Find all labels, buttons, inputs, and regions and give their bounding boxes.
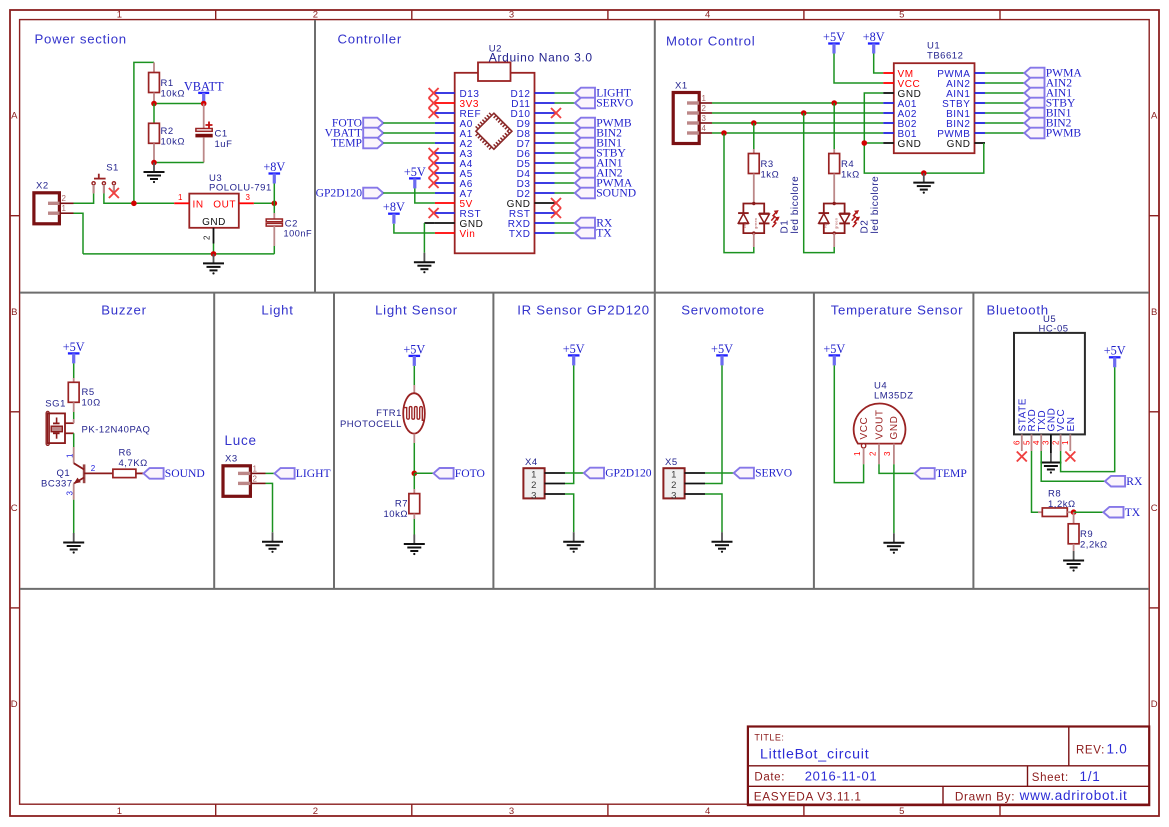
svg-text:2: 2 — [1051, 440, 1060, 445]
wire R7 to gnd — [413, 519, 415, 535]
wire +5V to FTR1 — [413, 366, 415, 385]
net flag +5V motor — [823, 30, 845, 54]
svg-text:2: 2 — [203, 235, 212, 240]
port flag TX — [575, 227, 612, 240]
pin 3V3 of U2 — [435, 102, 455, 104]
svg-text:TX: TX — [596, 227, 612, 240]
wire to FOTO flag — [414, 472, 433, 474]
svg-text:+5V: +5V — [1104, 344, 1126, 358]
port flag SOUND — [575, 187, 636, 200]
svg-text:D2: D2 — [860, 220, 871, 234]
led D2 bicolore — [819, 202, 861, 235]
svg-text:Arduino Nano 3.0: Arduino Nano 3.0 — [489, 51, 593, 65]
wire X2 pin1 down — [74, 213, 84, 254]
junction at R2 bottom — [151, 160, 157, 166]
connector X5 — [663, 468, 705, 498]
resistor R7 — [409, 489, 420, 519]
pin RST right of U2 — [535, 212, 555, 214]
svg-text:+5V: +5V — [823, 30, 845, 44]
resistor R6 — [113, 469, 136, 477]
pin D11 right of U2 — [535, 102, 555, 104]
svg-text:1: 1 — [853, 451, 862, 456]
ground below U2 — [414, 253, 435, 274]
resistor R9 — [1068, 512, 1079, 551]
pin A3 of U2 — [435, 152, 455, 154]
svg-text:Power section: Power section — [35, 32, 127, 47]
pin A02 left of U1 — [883, 112, 894, 114]
wire U2 to BIN1 — [555, 142, 575, 144]
svg-text:FTR1: FTR1 — [376, 408, 402, 419]
pin D12 right of U2 — [535, 92, 555, 94]
ground below U5 GND — [1040, 453, 1061, 474]
junction at VBATT rail bottom — [131, 201, 137, 207]
svg-text:Sheet:: Sheet: — [1032, 772, 1069, 784]
pin A5 of U2 — [435, 172, 455, 174]
svg-text:Buzzer: Buzzer — [101, 303, 146, 318]
wire U2 to SERVO — [555, 102, 575, 104]
pin GND right of U2 — [535, 202, 555, 204]
wire D1 loop — [753, 233, 755, 247]
ground below R9 — [1063, 551, 1084, 572]
wire U2 to AIN2 — [555, 172, 575, 174]
resistor R4 — [829, 103, 840, 204]
svg-text:+8V: +8V — [263, 160, 285, 174]
wire R1 to VBATT — [154, 103, 204, 105]
svg-text:GND: GND — [898, 139, 922, 150]
wire X1 pin4 to B01 — [712, 132, 883, 134]
connector X3 — [223, 466, 266, 497]
ground below X3 — [262, 532, 283, 553]
svg-text:3: 3 — [883, 451, 892, 456]
svg-text:3: 3 — [702, 114, 707, 123]
svg-text:6: 6 — [1013, 440, 1022, 445]
svg-text:5: 5 — [1022, 440, 1031, 445]
pin BIN1 right of U1 — [975, 112, 986, 114]
svg-text:C: C — [1151, 503, 1158, 514]
wire +5V IR down — [565, 365, 574, 483]
mcu U2 body — [455, 62, 535, 253]
svg-text:+5V: +5V — [823, 342, 845, 356]
junction at VBATT — [201, 101, 207, 107]
buzzer SG1 — [46, 411, 74, 445]
svg-text:R5: R5 — [82, 387, 95, 398]
junction at U3 out — [272, 201, 278, 207]
svg-text:1: 1 — [62, 204, 67, 213]
port flag GP2D120 — [316, 187, 384, 200]
wire U2 GND down — [424, 222, 435, 224]
ground below U3 — [203, 254, 224, 275]
wire VBATT top rail — [134, 62, 154, 203]
svg-text:REV:: REV: — [1076, 745, 1105, 757]
wire X4 pin3 to gnd — [565, 494, 574, 532]
svg-text:R2: R2 — [161, 126, 174, 137]
svg-text:2: 2 — [868, 451, 877, 456]
wire FTR1 to FOTO — [413, 443, 415, 473]
svg-text:led bicolore: led bicolore — [790, 176, 801, 234]
switch S1 — [92, 174, 116, 194]
svg-text:1kΩ: 1kΩ — [761, 170, 780, 181]
pin D9 right of U2 — [535, 122, 555, 124]
svg-text:IN: IN — [193, 199, 204, 210]
mcu U2 chip glyph — [476, 113, 512, 149]
no-connect X on U2 D13 — [429, 88, 439, 98]
wire +5V to U4 VCC — [834, 365, 863, 482]
svg-text:led bicolore: led bicolore — [870, 176, 881, 234]
svg-text:Motor Control: Motor Control — [666, 34, 755, 49]
transistor Q1 — [74, 447, 84, 500]
svg-text:3: 3 — [509, 806, 515, 817]
svg-text:2: 2 — [702, 104, 707, 113]
wire FOTO to R7 — [413, 473, 415, 489]
wire X4 pin1 to flag — [565, 472, 584, 474]
port flag SOUND buzzer — [144, 467, 205, 480]
pin 3 of U3 — [239, 202, 254, 204]
svg-text:10kΩ: 10kΩ — [161, 89, 186, 100]
net flag +5V light sensor — [403, 342, 425, 366]
svg-text:+8V: +8V — [383, 200, 405, 214]
pin RST of U2 — [435, 212, 455, 214]
port flag STBY — [575, 147, 627, 160]
pin VM left of U1 — [883, 72, 894, 74]
wire R5 to buzzer — [73, 412, 75, 419]
svg-text:10kΩ: 10kΩ — [161, 137, 186, 148]
svg-text:GND: GND — [202, 217, 226, 228]
wire U1 GND left — [864, 93, 984, 173]
pin A1 of U2 — [435, 132, 455, 134]
wire R8 to TX — [1074, 511, 1104, 513]
wire +8V to Vin — [394, 224, 435, 233]
svg-text:3: 3 — [246, 193, 251, 202]
svg-text:3: 3 — [531, 490, 537, 501]
wire U2 to SOUND — [555, 192, 575, 194]
svg-text:R3: R3 — [761, 159, 774, 170]
pin B01 left of U1 — [883, 132, 894, 134]
wire U1 to AIN1 flag — [985, 92, 1024, 94]
net flag VBATT — [184, 79, 224, 103]
svg-text:POLOLU-791: POLOLU-791 — [209, 183, 272, 194]
pin 2 of U3 — [213, 228, 215, 244]
pin D5 right of U2 — [535, 162, 555, 164]
svg-text:1: 1 — [117, 806, 123, 817]
no-connect X on U5 STATE — [1017, 452, 1027, 462]
svg-text:4,7KΩ: 4,7KΩ — [119, 458, 148, 469]
pin 1 of U3 — [174, 202, 189, 204]
svg-text:2: 2 — [253, 475, 258, 484]
svg-text:+5V: +5V — [63, 340, 85, 354]
svg-text:1: 1 — [531, 469, 537, 480]
pin D2 right of U2 — [535, 192, 555, 194]
svg-text:2: 2 — [62, 194, 67, 203]
svg-text:X4: X4 — [525, 457, 538, 468]
svg-text:1: 1 — [117, 9, 123, 20]
port flag LIGHT — [275, 467, 331, 480]
svg-text:3: 3 — [671, 490, 677, 501]
wire U5 VCC to +5V — [1061, 367, 1115, 471]
svg-text:X5: X5 — [665, 457, 678, 468]
svg-text:3: 3 — [509, 9, 515, 20]
wire U1 to AIN2 flag — [985, 82, 1024, 84]
photocell FTR1 — [403, 385, 425, 443]
svg-text:X3: X3 — [225, 454, 238, 465]
svg-text:VOUT: VOUT — [874, 410, 885, 440]
pin GND of U2 — [435, 222, 455, 224]
svg-text:PK-12N40PAQ: PK-12N40PAQ — [82, 424, 151, 435]
no-connect X on U2 A3 — [429, 148, 439, 158]
port flag AIN2 motor — [1024, 77, 1072, 90]
pin A2 of U2 — [435, 142, 455, 144]
wire U2 to AIN1 — [555, 162, 575, 164]
svg-text:GP2D120: GP2D120 — [605, 467, 652, 480]
net flag +8V motor — [863, 30, 885, 54]
port flag PWMA motor — [1024, 67, 1082, 80]
svg-text:2: 2 — [531, 480, 537, 491]
net flag +8V power — [263, 160, 285, 184]
svg-text:5: 5 — [899, 9, 905, 20]
pin PWMB right of U1 — [975, 132, 986, 134]
svg-text:GP2D120: GP2D120 — [316, 187, 363, 200]
wire R2 C1 bottom — [154, 162, 204, 164]
capacitor C1 — [195, 104, 212, 163]
section partition lines — [20, 292, 1149, 294]
svg-text:+5V: +5V — [563, 342, 585, 356]
port flag RX — [575, 217, 613, 230]
led D1 bicolore — [738, 202, 780, 235]
svg-text:TEMP: TEMP — [331, 137, 362, 150]
svg-text:VBATT: VBATT — [184, 79, 224, 93]
wire R6 to SOUND — [136, 472, 144, 474]
port flag PWMA — [575, 177, 633, 190]
wire U2 to RX — [555, 222, 575, 224]
wire U3 pin2 to rail — [213, 244, 215, 254]
svg-text:Temperature Sensor: Temperature Sensor — [831, 303, 964, 318]
junction X1 pin4 — [721, 130, 727, 136]
ground below U4 — [883, 533, 904, 554]
svg-text:Bluetooth: Bluetooth — [987, 303, 1049, 318]
svg-text:Light: Light — [261, 303, 293, 318]
junction U1 gnd — [862, 140, 868, 146]
port flag BIN2 motor — [1024, 117, 1071, 130]
no-connect X on U2 D10 right — [551, 108, 561, 118]
svg-text:4: 4 — [702, 124, 707, 133]
driver U1 body — [894, 63, 975, 153]
ground below Q1 — [63, 533, 84, 554]
svg-text:10Ω: 10Ω — [82, 398, 101, 409]
no-connect X on U2 A4 — [429, 158, 439, 168]
svg-text:RX: RX — [1126, 475, 1143, 488]
junction at R1 bottom — [151, 101, 157, 107]
pin STBY right of U1 — [975, 102, 986, 104]
svg-text:TITLE:: TITLE: — [754, 733, 784, 743]
svg-text:TB6612: TB6612 — [927, 51, 963, 62]
wire U1 GND left lower — [864, 142, 883, 144]
ground below R2 — [144, 163, 165, 184]
svg-text:1/1: 1/1 — [1080, 769, 1101, 784]
svg-text:EASYEDA V3.11.1: EASYEDA V3.11.1 — [754, 790, 862, 804]
svg-text:red: red — [742, 222, 747, 228]
svg-text:PHOTOCELL: PHOTOCELL — [340, 419, 402, 430]
svg-text:GND: GND — [889, 416, 900, 440]
svg-text:1uF: 1uF — [215, 139, 233, 150]
pin D10 right of U2 — [535, 112, 555, 114]
wire +8V to VM — [874, 54, 884, 74]
pin Vin of U2 — [435, 232, 455, 234]
net flag +5V bluetooth — [1104, 344, 1126, 368]
svg-text:R9: R9 — [1080, 529, 1093, 540]
wire +8V down — [273, 184, 275, 204]
svg-text:1.0: 1.0 — [1107, 742, 1128, 757]
svg-text:2: 2 — [91, 464, 96, 473]
net flag +5V buzzer — [63, 340, 85, 364]
wire U2 to STBY — [555, 152, 575, 154]
net flag +5V servo — [711, 342, 733, 366]
junction U1 gnd bottom — [921, 170, 927, 176]
no-connect X on S1 pin — [109, 188, 119, 198]
svg-text:S1: S1 — [106, 163, 119, 174]
svg-text:SOUND: SOUND — [596, 187, 636, 200]
resistor R2 — [149, 123, 160, 162]
svg-text:R7: R7 — [395, 499, 408, 510]
port flag PWMB — [575, 117, 632, 130]
svg-text:1: 1 — [671, 469, 677, 480]
svg-text:Date:: Date: — [754, 772, 785, 784]
svg-text:LM35DZ: LM35DZ — [874, 391, 914, 402]
net flag +5V temp — [823, 342, 845, 366]
sensor U4 LM35DZ — [854, 403, 906, 464]
wire D2 loop — [833, 233, 835, 247]
junction at U3 gnd — [211, 251, 217, 257]
port flag RX — [1105, 475, 1143, 488]
base wire Q1 to R6 — [84, 472, 113, 474]
svg-text:D: D — [1151, 699, 1158, 710]
wire U1 to PWMA flag — [985, 72, 1024, 74]
no-connect X on U2 RST — [429, 208, 439, 218]
pin A01 left of U1 — [883, 102, 894, 104]
svg-text:1: 1 — [178, 193, 183, 202]
no-connect X on U2 A6 — [429, 178, 439, 188]
pin D13 of U2 — [435, 92, 455, 94]
junction FOTO node — [412, 471, 418, 477]
svg-text:red: red — [822, 222, 827, 228]
svg-text:4: 4 — [1032, 440, 1041, 445]
pin B02 left of U1 — [883, 122, 894, 124]
svg-text:EN: EN — [1066, 417, 1077, 432]
svg-text:R1: R1 — [161, 78, 174, 89]
pin D8 right of U2 — [535, 132, 555, 134]
svg-text:A: A — [11, 111, 18, 122]
pin AIN1 right of U1 — [975, 92, 986, 94]
port flag SERVO — [575, 97, 633, 110]
svg-text:3: 3 — [1042, 440, 1051, 445]
junction X1 pin3 — [751, 120, 757, 126]
wire U5 TXD to RX — [1041, 451, 1105, 481]
pin REF of U2 — [435, 112, 455, 114]
resistor R8 — [1038, 508, 1074, 517]
pin PWMA right of U1 — [975, 72, 986, 74]
wire FOTO to A0 — [383, 122, 435, 124]
svg-text:Drawn By:: Drawn By: — [955, 790, 1015, 804]
pin BIN2 right of U1 — [975, 122, 986, 124]
connector X2 — [34, 193, 74, 224]
svg-text:green: green — [833, 218, 838, 229]
wire U3 GND bottom rail — [83, 253, 274, 255]
svg-text:SG1: SG1 — [45, 399, 66, 410]
wire +5V servo down — [705, 365, 722, 483]
svg-text:Servomotore: Servomotore — [681, 303, 765, 318]
svg-text:PWMB: PWMB — [1046, 127, 1082, 140]
pin D7 right of U2 — [535, 142, 555, 144]
pin GND left of U1 — [883, 142, 894, 144]
port flag TX — [1103, 506, 1140, 519]
wire U2 to TX — [555, 232, 575, 234]
wire X5 pin3 to gnd — [705, 494, 722, 532]
wire U1 to BIN2 flag — [985, 122, 1024, 124]
svg-text:VCC: VCC — [859, 417, 870, 440]
net flag +5V IR — [563, 342, 585, 366]
wire U1 to STBY flag — [985, 102, 1024, 104]
svg-text:FOTO: FOTO — [455, 467, 485, 480]
port flag SERVO sensor — [734, 467, 792, 480]
wire X5 pin1 to flag — [705, 472, 734, 474]
wire U2 to PWMB — [555, 122, 575, 124]
wire U2 to LIGHT — [555, 92, 575, 94]
svg-text:TEMP: TEMP — [936, 467, 967, 480]
svg-text:IR Sensor GP2D120: IR Sensor GP2D120 — [517, 303, 650, 318]
no-connect X on U2 A5 — [429, 168, 439, 178]
junction X1 pin2 — [801, 110, 807, 116]
svg-text:green: green — [753, 218, 758, 229]
ground below U1 — [913, 173, 934, 194]
svg-text:2: 2 — [313, 806, 319, 817]
connector X4 — [523, 468, 565, 498]
svg-text:1kΩ: 1kΩ — [841, 170, 860, 181]
svg-text:5: 5 — [899, 806, 905, 817]
svg-text:D: D — [11, 699, 18, 710]
no-connect X on U5 EN — [1065, 452, 1075, 462]
svg-text:A: A — [1151, 111, 1158, 122]
wire X1 pin1 to A01 — [712, 102, 883, 104]
net flag +8V controller — [383, 200, 405, 224]
svg-text:LIGHT: LIGHT — [296, 467, 331, 480]
pin TXD right of U2 — [535, 232, 555, 234]
svg-text:X1: X1 — [675, 81, 688, 92]
svg-text:4: 4 — [705, 806, 711, 817]
svg-text:+5V: +5V — [711, 342, 733, 356]
svg-text:2,2kΩ: 2,2kΩ — [1080, 540, 1108, 551]
svg-text:2: 2 — [671, 480, 677, 491]
wire GP2D120 to A7 — [383, 192, 435, 194]
svg-text:OUT: OUT — [213, 199, 236, 210]
wire +5V to VCC — [834, 54, 883, 84]
pin RXD right of U2 — [535, 222, 555, 224]
svg-text:1: 1 — [253, 465, 258, 474]
wire X2 pin2 to switch — [74, 193, 94, 203]
wire VBATT to A1 — [383, 132, 435, 134]
pin A4 of U2 — [435, 162, 455, 164]
port flag LIGHT — [575, 87, 631, 100]
port flag BIN1 — [575, 137, 622, 150]
wire U1 to BIN1 flag — [985, 112, 1024, 114]
wire +5V to 5V pin — [415, 188, 435, 203]
wire X3 pin1 to LIGHT — [266, 472, 275, 474]
svg-text:SOUND: SOUND — [165, 467, 205, 480]
svg-text:2016-11-01: 2016-11-01 — [805, 769, 878, 784]
svg-text:Light Sensor: Light Sensor — [375, 303, 458, 318]
svg-text:R4: R4 — [841, 159, 854, 170]
pin 5V of U2 — [435, 202, 455, 204]
wire X1 pin2 to A02 — [712, 112, 883, 114]
svg-text:LittleBot_circuit: LittleBot_circuit — [760, 747, 869, 763]
port flag TEMP sensor — [915, 467, 967, 480]
